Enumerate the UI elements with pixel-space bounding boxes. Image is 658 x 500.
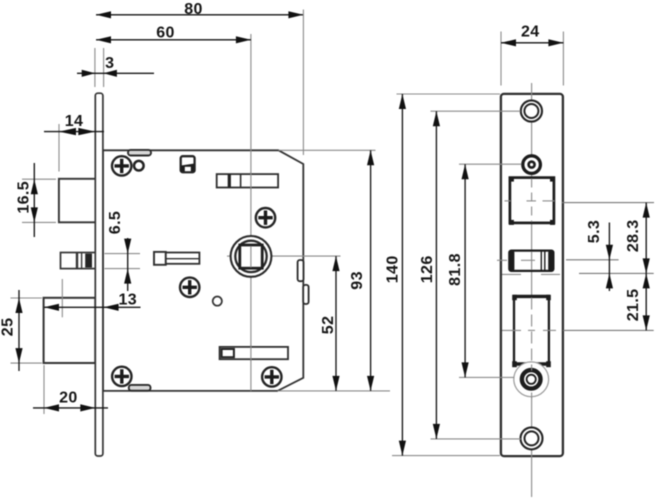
svg-text:24: 24 [521,24,540,41]
dim 5.3 [586,220,613,291]
dim 80 [96,1,303,155]
dim 24 [501,24,563,86]
screw top-left [112,156,131,175]
centerline overlay through upper bar [250,172,252,190]
lower screw boss [514,362,549,397]
lock body outline [103,150,303,391]
svg-text:60: 60 [156,25,175,42]
bottom hole [521,427,543,449]
right edge tab B [303,285,308,304]
dim 25 [0,290,42,371]
auxiliary bolt side view [61,253,96,269]
dim 126 [419,111,521,439]
body top extension line [279,149,376,151]
dim 81.8 [447,164,522,377]
deadbolt centerline [502,329,654,331]
dim 21.5 [625,273,650,330]
dim 93 [349,150,374,391]
body bottom extension line [278,390,390,392]
bottom pivot tab [129,385,151,391]
reference line 273 [502,273,654,274]
aux bolt front view [509,251,553,271]
plate centerline overlays through openings [531,179,533,399]
svg-text:13: 13 [118,291,137,308]
dim 13 [44,279,141,317]
plate vertical centerline [531,83,533,497]
dim 140 [384,94,500,456]
svg-text:16.5: 16.5 [16,181,33,214]
dim 16.5 [16,163,56,237]
spindle horizontal leader [259,255,341,257]
dim 52 [320,256,339,391]
svg-text:28.3: 28.3 [625,219,642,252]
svg-text:126: 126 [419,255,436,283]
svg-text:6.5: 6.5 [107,211,124,234]
top hole [521,100,542,121]
svg-text:52: 52 [320,316,337,335]
spindle hub [231,236,272,277]
latch opening [510,178,554,223]
spindle vertical centerline upper [250,34,252,391]
screw bottom-left [112,367,131,386]
svg-text:80: 80 [184,1,203,18]
right edge tab A [298,260,304,281]
aux centerline [497,259,619,262]
dim 3 [77,48,154,87]
screw bottom-right [262,367,281,386]
small hole [213,297,222,306]
dim 14 [44,113,104,172]
latch centerline [505,201,655,203]
svg-text:5.3: 5.3 [586,220,603,243]
small clip part [181,156,195,172]
top pivot tab [128,150,151,156]
svg-text:3: 3 [105,55,114,72]
lower slide bar [220,347,288,359]
svg-text:81.8: 81.8 [447,253,464,286]
screw upper-right [256,208,275,227]
dim 20 [33,365,108,414]
deadbolt side view [44,298,96,363]
svg-text:21.5: 21.5 [625,289,642,322]
svg-text:140: 140 [384,255,401,283]
centerline overlay through lower bar [250,345,252,361]
svg-text:20: 20 [59,390,78,407]
svg-text:25: 25 [0,318,16,337]
svg-text:93: 93 [349,271,366,290]
dim 60 [96,25,251,44]
latch opening corner blocks [509,177,555,225]
second hole thick ring [523,156,541,174]
small circle beside screw [134,161,144,171]
latch bolt [59,179,96,223]
screw mid-left [180,278,199,297]
follower bar mid-left [154,252,199,265]
centerline overlay through hub square [250,246,252,268]
faceplate side view [95,93,103,456]
svg-text:14: 14 [65,113,84,130]
upper slide bar [217,174,278,187]
dim 28.3 [625,203,650,274]
dim 6.5 [105,211,141,291]
strike faceplate front view [501,94,563,456]
deadbolt opening [512,295,551,367]
